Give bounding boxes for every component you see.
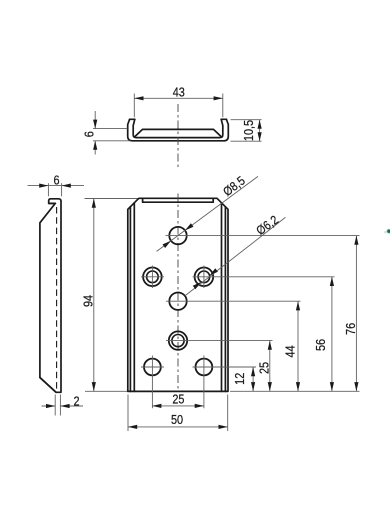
leader Ø8,5 [157, 174, 258, 252]
svg-text:6: 6 [83, 131, 97, 137]
green artifact dot [384, 229, 390, 234]
left bend line inner [133, 203, 135, 392]
profile left wall top cap [130, 118, 135, 120]
hole H4 centermark + extension to 25 dim [166, 340, 273, 342]
dimension 10,5 (profile wall height) [231, 119, 262, 141]
svg-text:12: 12 [234, 373, 248, 385]
dimension 76 [344, 236, 358, 392]
svg-text:25: 25 [172, 393, 185, 407]
dimension 56 [314, 277, 334, 392]
svg-text:44: 44 [284, 345, 298, 358]
dimension 44 [284, 301, 300, 391]
dimension 25 (bottom) [152, 393, 204, 408]
side view hidden edge (dashed) [56, 207, 58, 390]
svg-text:76: 76 [344, 323, 358, 335]
hole H4 center counterbore outer [169, 331, 187, 349]
hole H4 center counterbore inner [172, 335, 184, 347]
svg-text:43: 43 [173, 86, 185, 100]
dimension 6 (profile height) [83, 111, 131, 155]
hole H5 right bottom [196, 359, 213, 376]
right bend line inner [221, 203, 223, 392]
hole H3 centermark + extension to 44 dim [166, 300, 301, 302]
svg-text:94: 94 [82, 295, 96, 308]
dimension 6 (side view top width) [28, 174, 85, 197]
hole H1 horizontal centermark + extension to 76 dim [166, 235, 360, 237]
hole H2 left centermarks [141, 266, 164, 289]
side view lip inner line [49, 202, 56, 204]
right bend line outer [224, 207, 226, 392]
profile inner outline [133, 119, 223, 137]
svg-text:10,5: 10,5 [243, 119, 257, 141]
hole H2 left counterbore outer [143, 268, 162, 287]
hole H3 middle (Ø8.5) [169, 293, 186, 310]
profile centerline [177, 104, 179, 168]
side view outline [40, 199, 61, 392]
hole H5 left centermarks + extension down [141, 356, 164, 409]
dimension 50 [128, 395, 228, 432]
leader Ø6,2 [185, 213, 286, 296]
front view top inner edge [143, 198, 214, 202]
svg-text:2: 2 [73, 395, 79, 409]
dimension 12 [234, 367, 256, 391]
dimension 25 (right) [258, 341, 272, 392]
left bend line outer [129, 207, 131, 392]
profile outer outline [128, 119, 229, 141]
hole H2 right centermarks + extension to 56 dim [193, 266, 335, 289]
side view bottom chamfer [40, 378, 56, 393]
profile plate top edge line [135, 129, 221, 136]
hole H2 left counterbore inner [147, 271, 159, 283]
front view outline with top chamfers [128, 198, 228, 391]
svg-text:6: 6 [53, 174, 59, 188]
hole H1 top (Ø8.5) [169, 227, 186, 244]
svg-text:25: 25 [258, 362, 272, 375]
dimension 94 [82, 199, 139, 392]
hole H5 right centermarks + extensions [193, 356, 257, 409]
hole H2 right counterbore inner [198, 271, 210, 283]
dimension 2 (plate thickness) [42, 395, 84, 416]
hole H2 right counterbore outer [195, 268, 214, 287]
dimension 43 [134, 86, 223, 117]
svg-text:56: 56 [314, 339, 328, 351]
front view vertical centerline [177, 194, 179, 391]
svg-text:50: 50 [171, 413, 184, 427]
profile right wall top cap [221, 118, 226, 120]
baseline extension (bottom edge to right dims) [230, 390, 360, 392]
hole H5 left bottom [144, 359, 161, 376]
